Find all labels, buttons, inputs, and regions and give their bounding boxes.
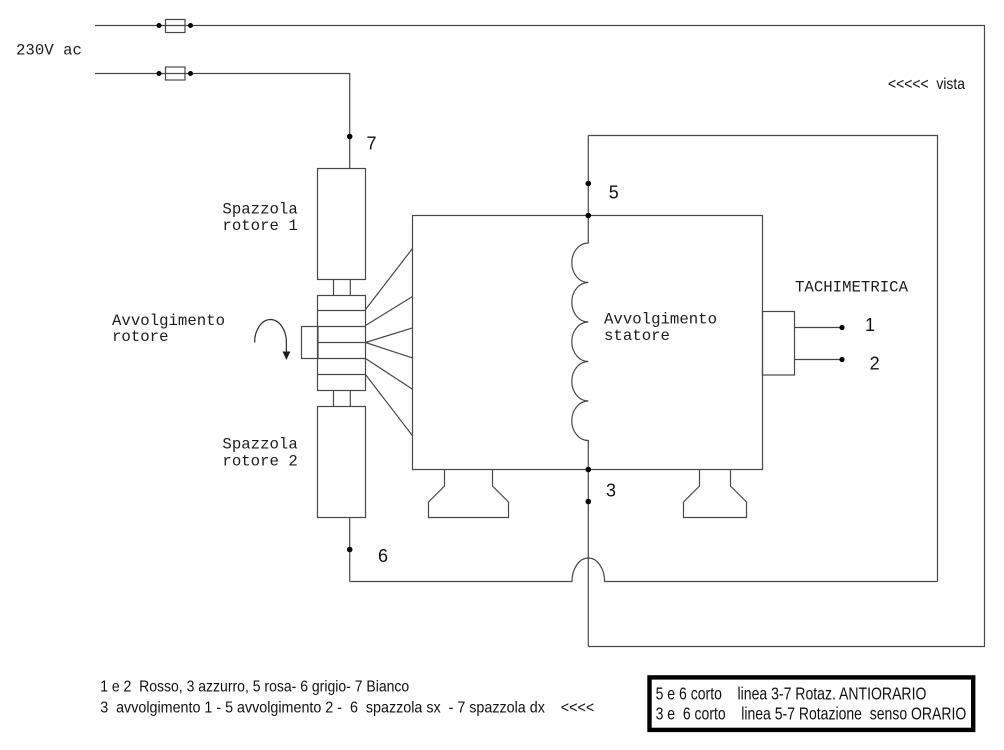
dot fuse2 right bbox=[188, 71, 193, 76]
tacho terminal 2 dot bbox=[839, 357, 844, 362]
rotation arrow bbox=[255, 320, 287, 353]
svg-text:TACHIMETRICA: TACHIMETRICA bbox=[795, 279, 909, 297]
svg-text:7: 7 bbox=[367, 133, 377, 153]
wire: inner vista-box left edge (node 5 drop) bbox=[587, 136, 589, 216]
fan wire 2 bbox=[366, 297, 413, 326]
dot fuse2 left bbox=[157, 71, 162, 76]
node 7 dot bbox=[347, 134, 353, 140]
stator winding coil bbox=[572, 216, 589, 470]
fan wire 5 bbox=[366, 359, 413, 390]
node 3 dot bbox=[586, 499, 592, 505]
svg-text:statore: statore bbox=[604, 327, 670, 345]
tachimetrica connector box bbox=[763, 312, 795, 376]
svg-text:3 e 6 corto linea 5-7 Rota: 3 e 6 corto linea 5-7 Rotazione senso OR… bbox=[656, 703, 967, 723]
tacho terminal 1 dot bbox=[839, 325, 844, 330]
stator top junction dot bbox=[586, 213, 592, 219]
brush rotore 2 bbox=[318, 407, 366, 518]
wire: node6 vertical to brush 2 bbox=[349, 518, 351, 582]
svg-text:rotore 2: rotore 2 bbox=[222, 453, 297, 471]
fuse F2 bbox=[166, 67, 186, 80]
svg-text:rotore 1: rotore 1 bbox=[222, 217, 297, 235]
brush 2 neck bbox=[334, 391, 351, 407]
stator box (motor body) bbox=[413, 216, 763, 470]
svg-text:Avvolgimento: Avvolgimento bbox=[604, 311, 717, 329]
fuse F1 bbox=[166, 20, 186, 33]
wire: bottom wire with hop-over hump bbox=[350, 558, 938, 582]
dot fuse1 right bbox=[188, 23, 193, 28]
svg-text:5 e 6 corto linea 3-7 Rotaz: 5 e 6 corto linea 3-7 Rotaz. ANTIORARIO bbox=[656, 683, 927, 703]
node 6 dot bbox=[347, 547, 353, 553]
tacho terminal wire 1 bbox=[795, 327, 843, 329]
wire: inner vista box top + right edge bbox=[588, 136, 937, 582]
dot fuse1 left bbox=[157, 23, 162, 28]
svg-text:230V ac: 230V ac bbox=[16, 42, 82, 60]
tacho terminal wire 2 bbox=[795, 359, 843, 361]
stator bottom junction dot bbox=[586, 467, 592, 473]
wire: 230V line 1 (top) + outer loop right/bottom bbox=[95, 26, 985, 647]
svg-text:Spazzola: Spazzola bbox=[222, 436, 297, 454]
wire: 230V line 2 (lower) down to brush 1 bbox=[95, 74, 350, 169]
brush rotore 1 bbox=[318, 169, 366, 280]
svg-text:Spazzola: Spazzola bbox=[222, 201, 297, 219]
brush 1 neck bbox=[334, 280, 351, 296]
wire: node3 vertical (x=588) from bottom loop up to stator box bbox=[587, 470, 589, 647]
svg-text:rotore: rotore bbox=[112, 328, 169, 346]
fan wire 1 bbox=[366, 249, 413, 310]
svg-text:2: 2 bbox=[870, 354, 880, 374]
commutator segment dividers bbox=[318, 311, 366, 375]
fan wire 3 bbox=[366, 328, 413, 343]
rotor core box (left) bbox=[302, 327, 319, 359]
commutator body bbox=[318, 296, 366, 391]
svg-text:1: 1 bbox=[865, 315, 875, 335]
fan wire 6 bbox=[366, 375, 413, 436]
svg-text:3 avvolgimento 1 - 5 avvolgim: 3 avvolgimento 1 - 5 avvolgimento 2 - 6 … bbox=[100, 700, 594, 717]
svg-text:3: 3 bbox=[606, 481, 616, 501]
svg-text:<<<<< vista: <<<<< vista bbox=[888, 76, 965, 93]
rotation arrow head bbox=[283, 352, 291, 361]
svg-text:6: 6 bbox=[378, 546, 388, 566]
motor foot left bbox=[429, 470, 509, 518]
fan wire 4 bbox=[366, 343, 413, 358]
node 5 dot bbox=[586, 181, 592, 187]
svg-text:1 e 2 Rosso, 3 azzurro, 5 ros: 1 e 2 Rosso, 3 azzurro, 5 rosa- 6 grigio… bbox=[100, 679, 409, 696]
motor foot right bbox=[684, 470, 747, 518]
rotation legend box bbox=[650, 677, 974, 730]
svg-text:5: 5 bbox=[609, 183, 619, 203]
